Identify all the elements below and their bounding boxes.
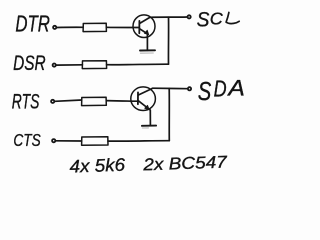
wire R2 to SCL riser	[107, 63, 169, 66]
label SCL	[197, 7, 240, 31]
wire Q2 collector to SDA terminal	[152, 87, 187, 90]
svg-text:S: S	[197, 7, 210, 31]
wire R1 to Q1 base	[106, 26, 139, 28]
svg-text:2x BC547: 2x BC547	[142, 152, 228, 174]
resistor R2	[82, 61, 106, 69]
node SDA terminal	[188, 87, 191, 90]
wire CTS terminal to R4	[56, 140, 82, 142]
node SCL terminal	[188, 15, 191, 18]
svg-text:C: C	[210, 9, 223, 29]
transistor Q1	[133, 15, 155, 50]
svg-text:CTS: CTS	[13, 130, 41, 150]
svg-text:DTR: DTR	[15, 11, 50, 37]
label SDA	[198, 75, 245, 105]
svg-text:D: D	[214, 76, 227, 102]
wire R3 to Q2 base	[106, 100, 138, 103]
node DSR terminal	[53, 64, 56, 67]
node RTS terminal	[51, 100, 54, 103]
svg-text:S: S	[198, 76, 212, 106]
node DTR terminal	[53, 26, 56, 29]
svg-text:DSR: DSR	[13, 51, 46, 75]
resistor R4	[82, 137, 108, 146]
wire RTS terminal to R3	[55, 100, 82, 101]
transistor Q2	[131, 87, 156, 126]
svg-text:4x 5k6: 4x 5k6	[69, 155, 126, 177]
wire DSR terminal to R2	[57, 64, 83, 66]
node CTS terminal	[52, 139, 55, 142]
wire Q1 collector to SCL terminal	[150, 16, 187, 18]
svg-text:RTS: RTS	[12, 91, 40, 114]
ground (Q2 emitter)	[142, 125, 156, 127]
wire DTR terminal to R1	[57, 26, 83, 28]
wire SDA junction riser	[168, 89, 170, 141]
svg-text:A: A	[226, 75, 245, 100]
wire R4 to SDA riser	[108, 140, 169, 142]
ground (Q1 emitter)	[140, 49, 155, 51]
wire SCL junction riser	[167, 17, 169, 64]
resistor R3	[82, 97, 107, 105]
resistor R1	[83, 23, 106, 31]
